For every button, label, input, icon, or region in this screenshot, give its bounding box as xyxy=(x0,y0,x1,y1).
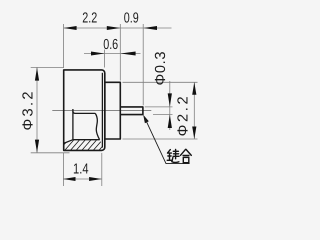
svg-text:Φ0.3: Φ0.3 xyxy=(153,52,169,86)
svg-text:1.4: 1.4 xyxy=(73,161,89,177)
svg-text:0.6: 0.6 xyxy=(103,37,118,53)
svg-text:Φ3.2: Φ3.2 xyxy=(20,92,36,131)
svg-text:Φ2.2: Φ2.2 xyxy=(176,96,192,136)
svg-text:2.2: 2.2 xyxy=(82,11,97,27)
svg-text:0.9: 0.9 xyxy=(124,11,139,27)
